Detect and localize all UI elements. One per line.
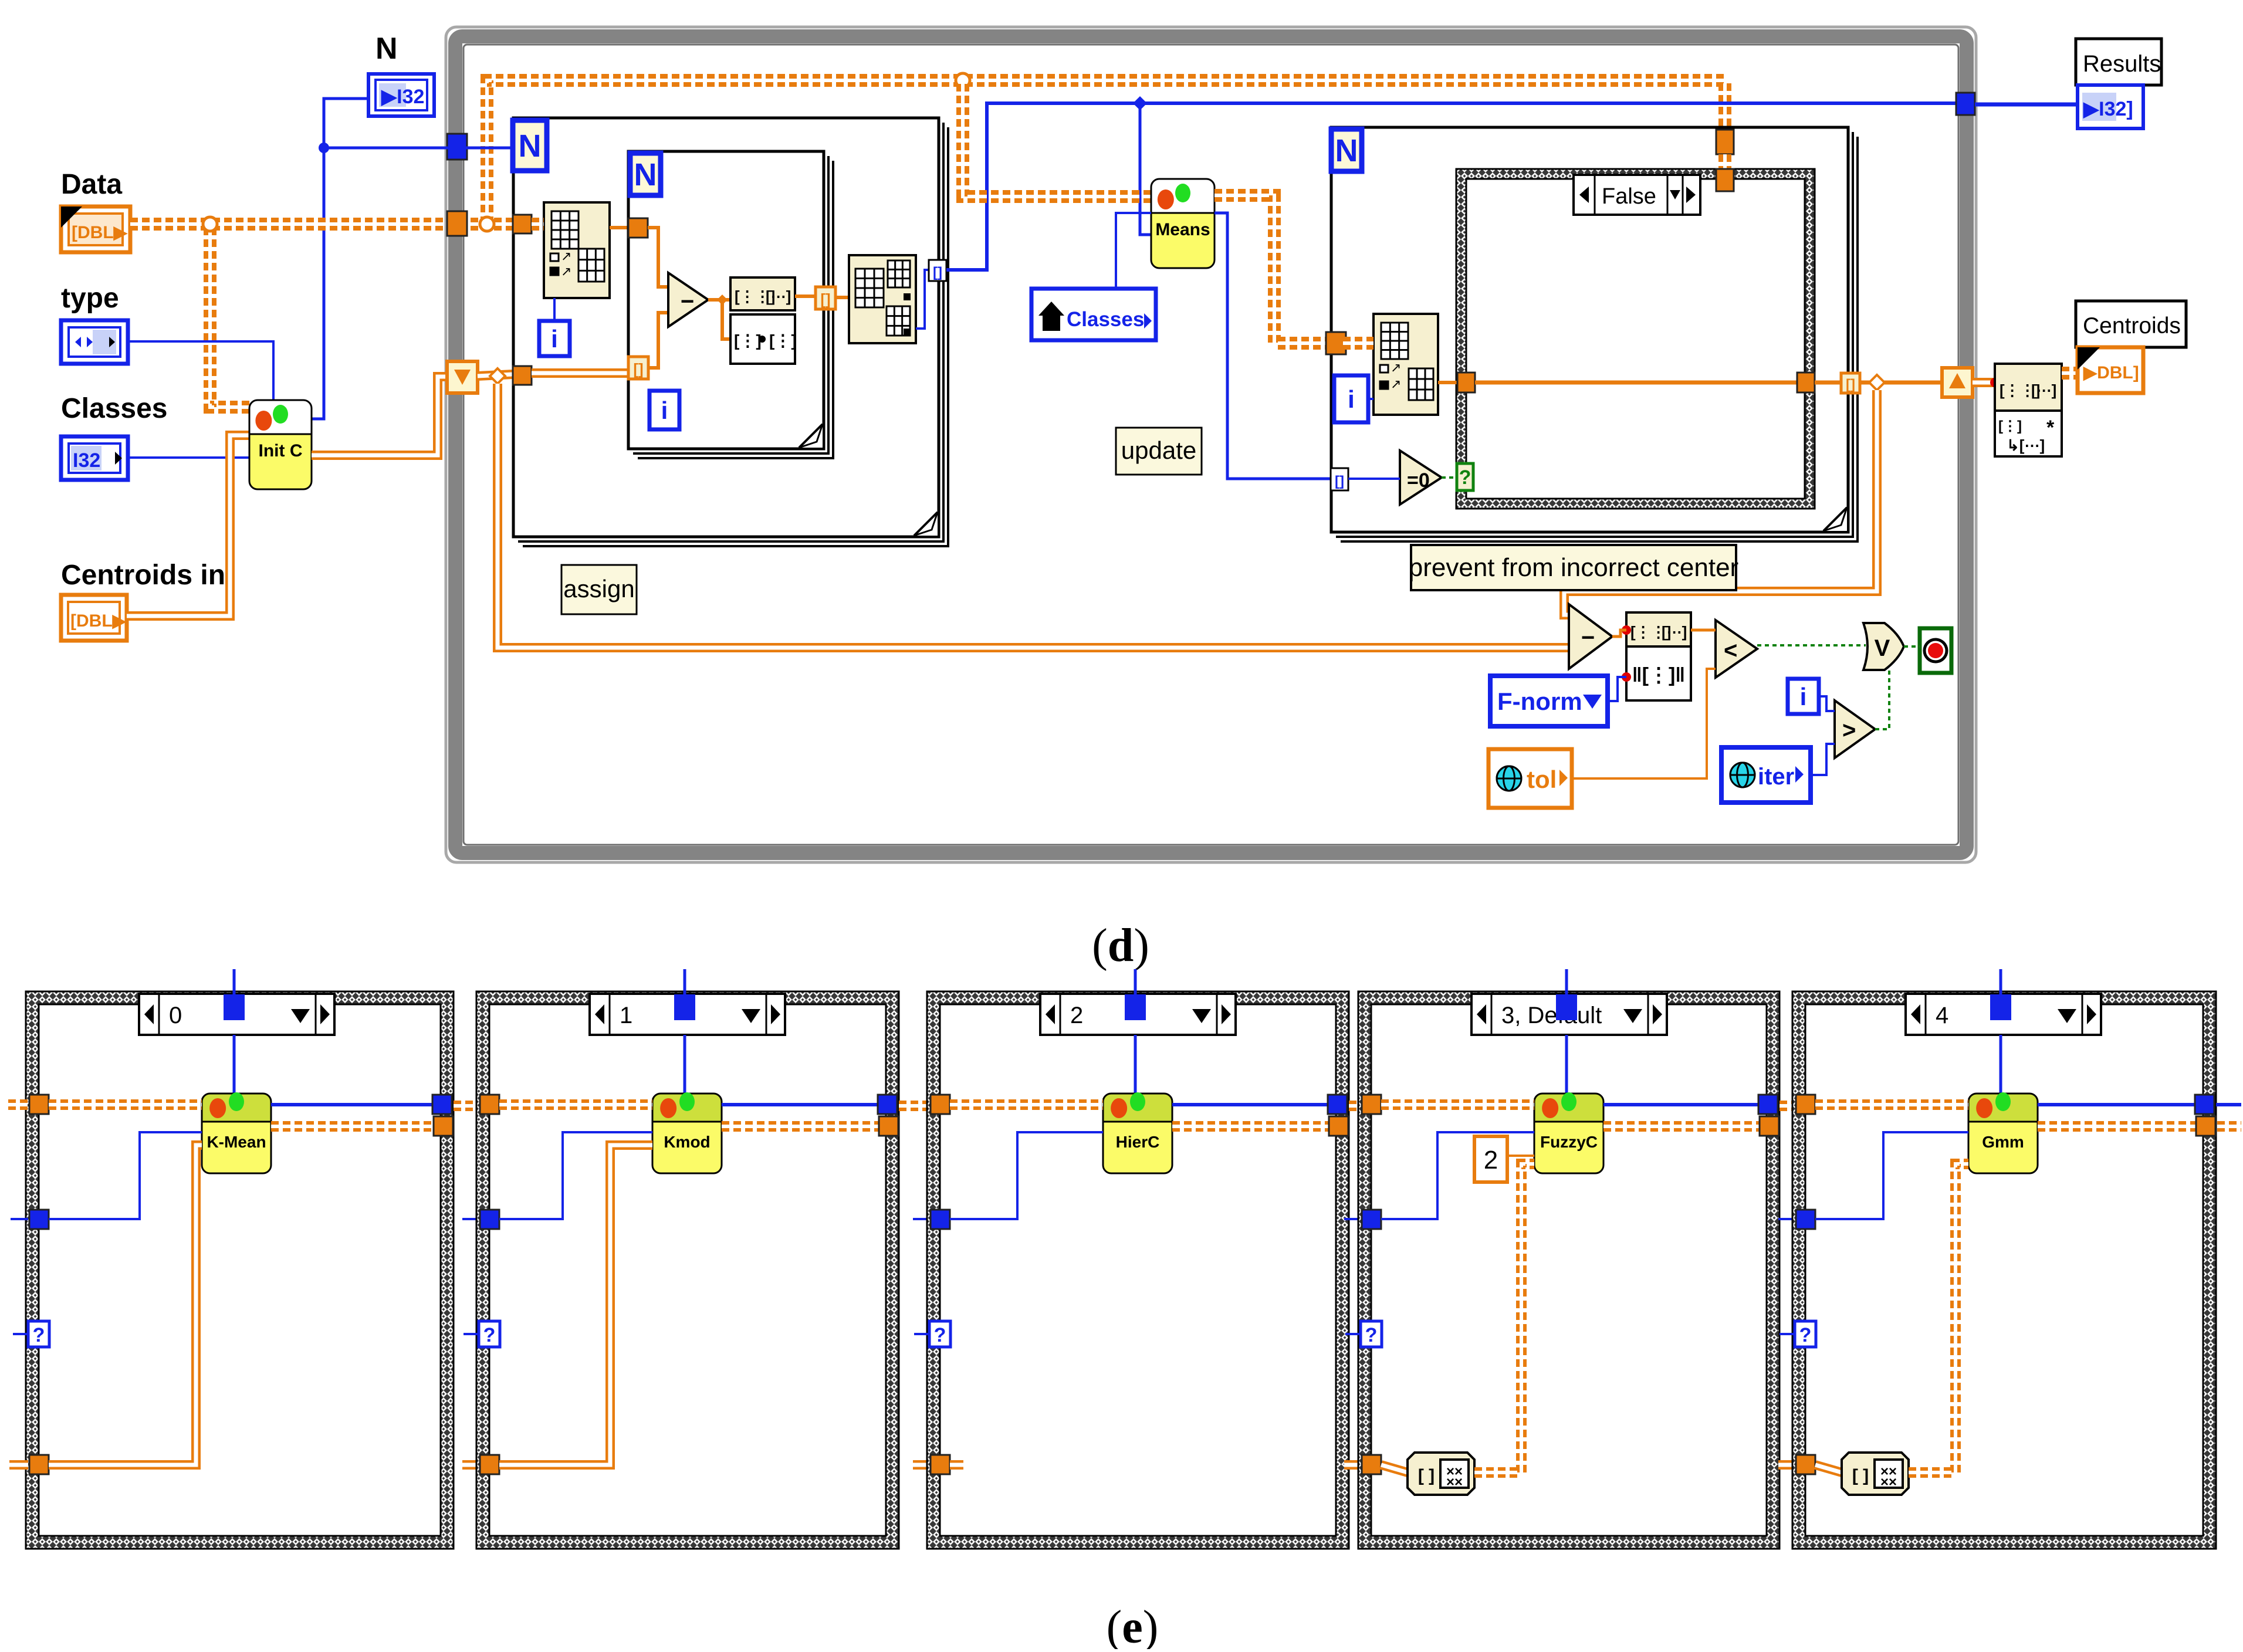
tunnel left blue	[480, 1210, 499, 1229]
wire tunnel to shift register right	[1860, 375, 1941, 390]
selector 4	[1906, 994, 2101, 1035]
question tunnel	[1779, 1321, 1816, 1347]
wire node blue out	[271, 1103, 432, 1106]
or node	[1863, 623, 1904, 670]
question tunnel	[914, 1321, 950, 1347]
tunnel left data	[1796, 1095, 1815, 1114]
label assign	[561, 565, 637, 614]
i terminal assign loop	[539, 321, 570, 356]
svg-text:?: ?	[1365, 1324, 1378, 1346]
selector tab	[674, 969, 695, 1020]
svg-text:>: >	[1842, 717, 1856, 743]
i terminal inner loop	[649, 391, 679, 429]
svg-text:=0: =0	[1407, 469, 1430, 492]
gap dashed wire	[1349, 1101, 1362, 1111]
wire tunnel to equals zero	[1348, 478, 1400, 480]
wire array up to node	[49, 1145, 202, 1465]
wire Means blue out	[1214, 213, 1331, 479]
label update	[1116, 428, 1202, 475]
wire node blue out	[2038, 1103, 2195, 1106]
svg-text:N: N	[634, 157, 657, 192]
node FuzzyC	[1534, 1092, 1603, 1173]
tunnel left blue	[1796, 1210, 1815, 1229]
control Centroids in [DBL]	[61, 595, 127, 641]
tunnel dashed on case top	[1716, 169, 1734, 191]
wire Centroids in to Init C	[127, 435, 249, 616]
selector tab	[1556, 969, 1577, 1020]
selector tab	[1990, 969, 2011, 1020]
svg-text:▶I32]: ▶I32]	[2083, 98, 2133, 120]
indicator N I32	[368, 74, 434, 116]
wire node dashed out	[722, 1121, 879, 1132]
tunnel centroids into assign loop	[513, 366, 532, 385]
svg-text:False: False	[1602, 184, 1656, 209]
node K-Mean	[202, 1092, 271, 1173]
constant 2	[1474, 1136, 1507, 1182]
svg-text:I32: I32	[73, 449, 100, 472]
tunnel left bottom orange	[29, 1455, 49, 1474]
tunnel right orange	[434, 1116, 453, 1136]
svg-text:N: N	[1335, 133, 1358, 168]
svg-text:××: ××	[1880, 1474, 1897, 1490]
node Init C	[249, 400, 312, 489]
svg-text:tol: tol	[1527, 766, 1557, 793]
subtract node convergence	[1569, 604, 1612, 669]
svg-text:Centroids: Centroids	[2083, 313, 2181, 338]
tunnel right blue	[1758, 1095, 1778, 1114]
question tunnel	[13, 1321, 49, 1347]
case frame 3, Default	[1358, 991, 1779, 1549]
wire Means dashed out	[1214, 195, 1327, 343]
node Means	[1151, 179, 1214, 268]
svg-text:HierC: HierC	[1116, 1133, 1160, 1151]
svg-text:↗: ↗	[1391, 360, 1401, 375]
wire data dashed to node	[49, 1099, 202, 1110]
gap orange stub	[1344, 1460, 1362, 1470]
N count inner loop	[630, 153, 661, 195]
wire selector to node	[684, 1035, 686, 1094]
svg-text:4: 4	[1936, 1003, 1948, 1028]
tunnel right orange	[1329, 1116, 1348, 1136]
svg-text:iter: iter	[1758, 764, 1794, 790]
case structure False	[1456, 169, 1815, 509]
tunnel results on while border	[1956, 93, 1975, 115]
tunnel Means dashed into update loop	[1326, 332, 1346, 354]
svg-text:[⋯]: [⋯]	[766, 287, 791, 305]
wire data dashed to node	[1381, 1099, 1534, 1110]
wire centroids down to subtract	[1564, 390, 1877, 615]
wire icon dashed up to node	[1474, 1164, 1534, 1472]
label type	[61, 283, 119, 314]
label Classes	[61, 393, 167, 424]
svg-text:‖[⋮]‖: ‖[⋮]‖	[1632, 664, 1685, 686]
selector 3, Default	[1471, 994, 1667, 1035]
svg-text:−: −	[681, 289, 694, 314]
svg-text:▶DBL]: ▶DBL]	[2083, 363, 2139, 382]
control type enum	[61, 320, 128, 364]
node HierC	[1103, 1092, 1172, 1173]
wire array to icon	[1381, 1465, 1408, 1472]
icon reshape 1D	[730, 277, 795, 310]
wire type to Init C	[128, 341, 273, 401]
wire shift register to assign loop	[478, 368, 513, 384]
svg-text:[]: []	[1335, 473, 1344, 489]
wire data dashed to node	[1815, 1099, 1968, 1110]
svg-text:[⋯]: [⋯]	[1662, 623, 1687, 641]
wire build icon to assign tunnel	[916, 270, 929, 329]
label Data	[61, 169, 122, 200]
control Data [DBL]	[61, 206, 130, 252]
svg-text:?: ?	[1799, 1324, 1812, 1346]
gap blue stub	[462, 1218, 480, 1220]
label Results	[2076, 39, 2161, 85]
tunnel left bottom orange	[1362, 1455, 1381, 1474]
icon index array small	[1842, 1453, 1909, 1495]
tunnel Data on while border	[447, 211, 467, 236]
label N	[375, 32, 398, 66]
while loop border	[446, 27, 1976, 862]
wire centroids tunnel to inner tunnel	[532, 368, 630, 378]
question mark tunnel	[1442, 463, 1473, 490]
wire shift register to reshape	[1973, 378, 2000, 387]
wire icon to case	[1438, 381, 1457, 384]
gap dashed wire	[1779, 1101, 1796, 1111]
svg-text:?: ?	[934, 1324, 946, 1346]
svg-text:2: 2	[1070, 1003, 1083, 1028]
svg-text:[ ]: [ ]	[1418, 1466, 1435, 1485]
for loop assign	[518, 123, 943, 541]
wire subtract to norm icons	[708, 294, 730, 339]
svg-text:?: ?	[483, 1324, 496, 1346]
combo F-norm	[1490, 676, 1608, 726]
svg-text:(d): (d)	[1092, 920, 1149, 971]
wire dashed tunnel to icon	[1343, 337, 1373, 350]
wire array up to node	[499, 1145, 652, 1465]
wire Classes prop to Means	[1116, 213, 1151, 289]
i terminal convergence	[1788, 679, 1819, 714]
svg-text:↳[⋯]: ↳[⋯]	[2007, 436, 2045, 454]
wire results long blue	[946, 96, 1956, 270]
svg-text:i: i	[661, 397, 668, 424]
question tunnel	[1345, 1321, 1382, 1347]
wire blue to node	[49, 1132, 202, 1219]
wires inner loop to subtract	[648, 228, 668, 368]
tunnel top dashed into update loop	[1716, 130, 1734, 154]
tunnel right orange	[879, 1116, 898, 1136]
svg-text:FuzzyC: FuzzyC	[1540, 1133, 1598, 1151]
tunnel left blue	[1362, 1210, 1381, 1229]
wire icon dashed up to node	[1909, 1164, 1968, 1472]
tunnel left data	[931, 1095, 950, 1114]
tunnel right orange	[2196, 1116, 2215, 1136]
blue wire into N	[466, 147, 513, 150]
svg-text:▶I32: ▶I32	[381, 86, 424, 108]
tunnel left data	[29, 1095, 49, 1114]
tunnel left bottom orange	[1796, 1455, 1815, 1474]
tunnel left data	[1362, 1095, 1381, 1114]
svg-text:N: N	[519, 128, 542, 164]
label Centroids	[2076, 301, 2186, 347]
svg-text:3, Default: 3, Default	[1501, 1003, 1602, 1028]
svg-text:assign: assign	[563, 575, 634, 602]
wire node blue out	[722, 1103, 878, 1106]
svg-text:i: i	[1348, 385, 1355, 413]
wire dashed top to case	[1718, 154, 1731, 180]
wire N indicator to loop	[319, 99, 448, 153]
gap dashed wire	[454, 1101, 480, 1111]
tunnel case right orange	[1797, 373, 1815, 392]
gap orange stub	[462, 1460, 480, 1470]
case frame 1	[476, 991, 899, 1549]
icon dot product	[730, 314, 797, 364]
tunnel left data	[480, 1095, 499, 1114]
svg-text:Classes: Classes	[61, 393, 167, 424]
svg-text:[]: []	[820, 290, 830, 308]
wire node dashed out	[1172, 1121, 1329, 1132]
svg-text:[DBL▶: [DBL▶	[70, 611, 127, 631]
svg-text:Means: Means	[1155, 220, 1210, 239]
svg-text:Results: Results	[2083, 51, 2161, 77]
svg-text:Centroids in: Centroids in	[61, 560, 225, 591]
selector False	[1574, 175, 1700, 215]
svg-text:F-norm: F-norm	[1497, 688, 1582, 715]
variable tol	[1488, 749, 1572, 808]
svg-text:Classes: Classes	[1067, 308, 1144, 331]
tunnel left bottom orange	[480, 1455, 499, 1474]
i terminal update loop	[1334, 375, 1368, 422]
icon matrix flatten	[1622, 612, 1691, 646]
wire selector to node	[1134, 1035, 1137, 1094]
wire case to loop tunnel	[1815, 381, 1842, 385]
tunnel inner loop output	[816, 287, 835, 309]
tunnel left blue	[29, 1210, 49, 1229]
equals zero node	[1400, 451, 1442, 505]
wire Init C array output to shift register	[312, 377, 449, 455]
case frame 2	[927, 991, 1349, 1549]
wire node dashed out	[1603, 1121, 1760, 1132]
selector tab	[1125, 969, 1146, 1020]
case frame 0	[26, 991, 454, 1549]
svg-text:1: 1	[620, 1003, 632, 1028]
question tunnel	[464, 1321, 500, 1347]
tunnel row into inner loop	[628, 218, 648, 238]
svg-text:[ ]: [ ]	[1852, 1466, 1869, 1485]
wire subtract to flatten	[1612, 630, 1626, 637]
wire to Results	[1975, 103, 2078, 107]
selector tab	[224, 969, 245, 1020]
wire data to icon	[532, 218, 544, 231]
wire node blue out	[1603, 1103, 1758, 1106]
svg-text:update: update	[1121, 436, 1196, 464]
svg-text:Kmod: Kmod	[664, 1133, 710, 1151]
svg-text:[⋮]: [⋮]	[769, 331, 797, 350]
svg-text:V: V	[1875, 635, 1890, 661]
property node Classes	[1031, 289, 1156, 340]
svg-text:[]: []	[933, 265, 942, 280]
selector 1	[590, 994, 785, 1035]
wire iter to greater	[1811, 744, 1835, 775]
wire array stub	[950, 1460, 963, 1470]
tunnel right orange	[1760, 1116, 1779, 1136]
variable iter	[1721, 747, 1811, 803]
tunnel right blue	[1328, 1095, 1347, 1114]
greater than node	[1835, 700, 1875, 758]
subtract node inner	[668, 273, 708, 327]
tunnel right blue	[432, 1095, 452, 1114]
icon index array rows	[544, 202, 610, 298]
svg-text:<: <	[1724, 638, 1737, 663]
tunnel means blue [] into update loop	[1331, 468, 1348, 490]
svg-text:Init C: Init C	[259, 441, 303, 461]
svg-text:[DBL▶: [DBL▶	[72, 223, 128, 242]
gap orange stub	[1778, 1460, 1796, 1470]
wire norm to less than	[1691, 629, 1716, 632]
svg-text:?: ?	[1459, 466, 1471, 489]
indicator Centroids DBL	[2078, 347, 2143, 393]
gap blue stub	[913, 1218, 931, 1220]
label Centroids in	[61, 560, 225, 591]
svg-text:[]: []	[633, 360, 643, 378]
tunnel data into assign loop	[513, 215, 532, 233]
tunnel update loop output []	[1841, 373, 1860, 393]
gap orange stub	[913, 1460, 931, 1470]
svg-text:Data: Data	[61, 169, 122, 200]
svg-text:N: N	[375, 32, 398, 66]
wire i to icon update	[1368, 398, 1373, 400]
wire data dashed to node	[499, 1099, 652, 1110]
wire Classes to Init C	[128, 456, 249, 459]
label prevent from incorrect center	[1409, 545, 1738, 590]
icon reshape top	[1995, 364, 2062, 411]
node Gmm	[1968, 1092, 2038, 1173]
svg-text:[⋯]: [⋯]	[2031, 381, 2056, 399]
svg-text:?: ?	[33, 1324, 45, 1346]
svg-text:2: 2	[1484, 1146, 1498, 1174]
for loop inner	[633, 156, 828, 453]
shift register right	[1942, 368, 1973, 397]
wire node dashed out	[271, 1121, 434, 1132]
node Kmod	[652, 1092, 722, 1173]
wire F-norm to norm	[1608, 677, 1626, 701]
svg-text:↗: ↗	[1391, 377, 1401, 391]
wire data dashed to node	[950, 1099, 1103, 1110]
wire dashed to Means	[963, 84, 1151, 197]
svg-text:i: i	[551, 325, 558, 353]
wire selector to node	[233, 1035, 236, 1094]
tunnel centroid row into inner loop	[628, 357, 648, 379]
wire node blue out	[1172, 1103, 1328, 1106]
svg-text:type: type	[61, 283, 119, 314]
wire icon to inner loop	[610, 226, 628, 229]
wire selector to node	[1565, 1035, 1568, 1094]
wire across case	[1475, 381, 1797, 385]
tunnel N on while border	[447, 134, 467, 160]
tunnel left blue	[931, 1210, 950, 1229]
gap blue stub	[1344, 1218, 1362, 1220]
wire selector to node	[2000, 1035, 2002, 1094]
wire i to greater	[1819, 696, 1835, 711]
indicator Results I32	[2078, 85, 2143, 128]
wire blue to node	[950, 1132, 1103, 1219]
svg-text:↗: ↗	[561, 249, 571, 263]
svg-text:i: i	[1800, 683, 1807, 710]
wire Init C blue output up	[312, 148, 324, 419]
tunnel left bottom orange	[931, 1455, 950, 1474]
icon norm	[1622, 646, 1691, 700]
svg-text:[⋮]: [⋮]	[1998, 418, 2022, 434]
wire less than to or	[1757, 644, 1866, 646]
wire or to stop	[1904, 645, 1920, 648]
shift register left	[447, 361, 478, 393]
wire norm out	[795, 294, 816, 298]
wire i to icon	[553, 298, 556, 321]
gap blue stub	[1778, 1218, 1796, 1220]
svg-text:××: ××	[1446, 1474, 1463, 1490]
less than node	[1716, 620, 1757, 678]
svg-text:*: *	[2046, 417, 2055, 439]
edge stubs right	[2216, 1103, 2241, 1106]
selector 2	[1040, 994, 1236, 1035]
svg-text:Gmm: Gmm	[1982, 1133, 2024, 1151]
stop terminal	[1920, 628, 1951, 673]
svg-text:−: −	[1581, 625, 1595, 651]
wire greater to or	[1875, 670, 1889, 729]
tunnel assign loop output	[929, 260, 946, 281]
svg-text:[]: []	[1846, 377, 1855, 392]
icon index array small	[1408, 1453, 1474, 1495]
svg-text:0: 0	[169, 1003, 182, 1028]
wire blue to node	[499, 1132, 652, 1219]
tunnel right blue	[878, 1095, 897, 1114]
N count update loop	[1331, 129, 1362, 171]
icon reshape bottom	[1995, 411, 2062, 456]
wire Data 2D array dashed	[130, 73, 1725, 407]
svg-text:K-Mean: K-Mean	[207, 1133, 266, 1151]
edge stubs left	[8, 1099, 28, 1110]
N count assign loop	[513, 120, 547, 171]
icon index array update	[1373, 314, 1438, 415]
for loop update	[1336, 132, 1853, 537]
svg-text:(e): (e)	[1107, 1602, 1159, 1649]
wire array to icon	[1815, 1465, 1842, 1472]
control Classes I32	[61, 436, 128, 480]
svg-text:[⋮]: [⋮]	[734, 331, 762, 350]
gap dashed wire	[899, 1101, 931, 1111]
tunnel case left orange	[1457, 373, 1475, 392]
svg-text:↗: ↗	[561, 264, 571, 279]
icon build rows	[849, 255, 916, 343]
wire N to Means	[1140, 103, 1151, 235]
case frame 4	[1792, 991, 2216, 1549]
selector 0	[139, 994, 334, 1035]
wire blue to node	[1815, 1132, 1968, 1219]
wire reshape to Centroids	[2062, 367, 2080, 380]
wire 2 to node	[1507, 1155, 1534, 1157]
wire blue to node	[1381, 1132, 1534, 1219]
wire node dashed out	[2038, 1121, 2196, 1132]
wire shift register down to subtract	[498, 384, 1569, 648]
wire tol to less than	[1572, 669, 1716, 778]
tunnel right blue	[2195, 1095, 2214, 1114]
svg-text:prevent from incorrect center: prevent from incorrect center	[1409, 553, 1738, 582]
wire tunnel to build icon	[835, 296, 849, 299]
